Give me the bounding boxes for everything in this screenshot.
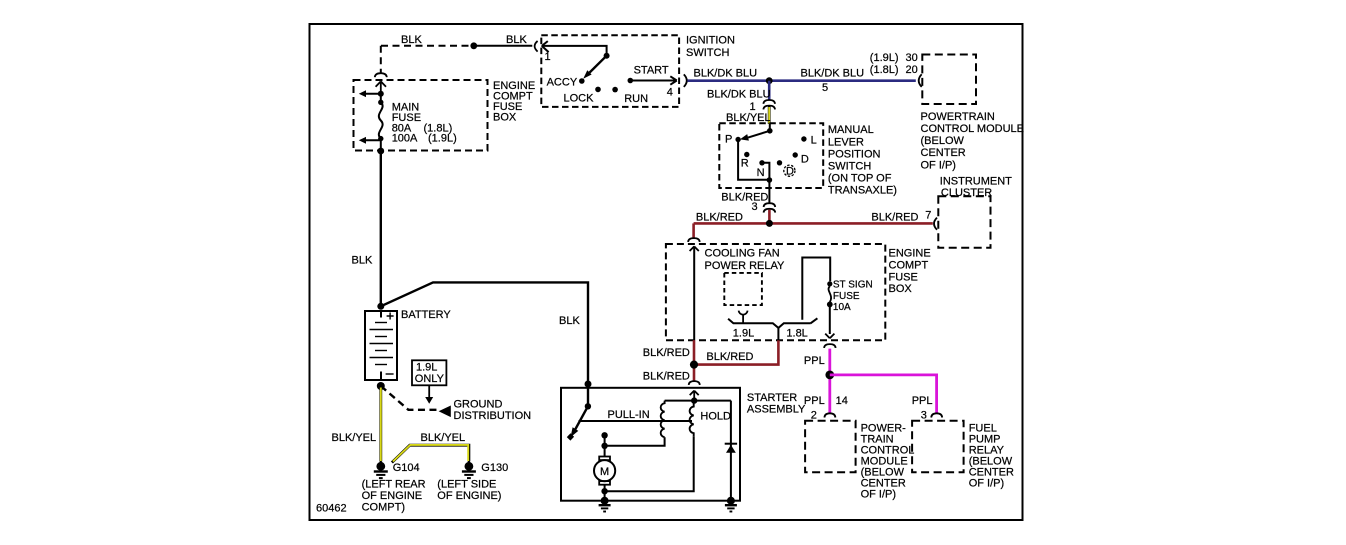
svg-text:20: 20 [906,64,918,76]
svg-text:R: R [741,158,749,170]
starter assembly box [561,388,740,501]
engine compt fuse box 2 (dashed) [666,244,885,340]
svg-text:OF ENGINE): OF ENGINE) [437,490,501,502]
svg-text:BLK/RED: BLK/RED [706,351,753,363]
svg-text:LOCK: LOCK [564,92,595,104]
svg-text:BLK/YEL: BLK/YEL [421,432,466,444]
svg-text:POWER RELAY: POWER RELAY [705,260,786,272]
connector at instrument cluster [934,218,937,230]
svg-text:P: P [725,133,732,145]
wire BLK solid to ignition switch [474,45,533,47]
svg-text:OF I/P): OF I/P) [969,477,1004,489]
svg-text:(ON TOP OF: (ON TOP OF [828,173,892,185]
svg-text:10A: 10A [833,302,851,313]
svg-text:COMPT: COMPT [889,260,929,272]
node at main fuse box bottom [380,139,382,151]
node solenoid coils top [691,397,697,403]
splice node on BLK/DK BLU [766,77,773,84]
wire fuse to box edge with down arrow [829,304,831,334]
svg-text:BLK/RED: BLK/RED [721,192,768,204]
svg-text:(LEFT SIDE: (LEFT SIDE [437,478,496,490]
pin 1 arrow inside ignition switch [542,41,549,52]
contact LOCK [595,87,601,93]
inline connector C1 [763,100,775,109]
wire BLK/YEL connector to MLPS [768,106,771,124]
connector at PCM pins 30/20 [919,74,922,87]
wire blade to coils [579,420,693,422]
connector at ignition switch pin 1 [535,41,538,52]
diode [730,401,732,501]
svg-text:BLK/RED: BLK/RED [871,212,918,224]
svg-text:DISTRIBUTION: DISTRIBUTION [454,410,532,422]
svg-text:2: 2 [811,409,817,421]
up arrow entering main fuse box [376,81,386,93]
ignition pivot dot [604,53,610,59]
svg-text:1.8L: 1.8L [786,327,807,339]
svg-text:OF I/P): OF I/P) [921,159,956,171]
inline connector C3 [764,203,776,212]
battery [365,311,397,380]
node motor bottom [601,488,607,494]
svg-text:CLUSTER: CLUSTER [941,187,992,199]
svg-text:BATTERY: BATTERY [401,309,451,321]
1.9L ONLY box [412,360,446,385]
node battery positive [377,303,384,310]
svg-text:BLK/RED: BLK/RED [643,371,690,383]
svg-text:N: N [757,167,765,179]
ground distribution arrow [439,406,451,418]
circled D (overdrive) [784,165,795,176]
wire BLK/DK BLU down to connector [768,81,771,100]
svg-text:M: M [600,466,609,478]
svg-text:SWITCH: SWITCH [686,47,729,59]
svg-text:OF ENGINE: OF ENGINE [362,490,423,502]
contact D2 [777,160,782,165]
svg-text:3: 3 [921,409,927,421]
up arrow entering fuse box [690,246,699,251]
svg-text:1.9L: 1.9L [416,362,437,374]
svg-text:ST SIGN: ST SIGN [833,280,873,291]
svg-text:(1.9L): (1.9L) [870,52,899,64]
contact P [735,137,740,142]
svg-text:(LEFT REAR: (LEFT REAR [362,478,426,490]
svg-text:G104: G104 [393,462,420,474]
svg-text:5: 5 [822,82,828,94]
ignition switch box [541,35,679,107]
wire coil tops [665,400,731,402]
feed arrow left (top) [363,93,381,95]
svg-text:ACCY: ACCY [547,76,578,88]
node at starter assembly top [585,381,592,388]
wire BLK/DK BLU ignition to PCM [687,79,915,82]
svg-text:(BELOW: (BELOW [921,135,965,147]
svg-text:ENGINE: ENGINE [889,248,931,260]
node diode ground [727,497,735,505]
svg-text:GROUND: GROUND [454,398,503,410]
node BLK/RED junction [690,361,698,369]
starter motor M [594,457,615,501]
svg-text:BLK/RED: BLK/RED [643,347,690,359]
ST SIGN fuse branch [802,258,830,320]
svg-text:PPL: PPL [912,395,933,407]
wire BLK/RED down into engine compt fuse box [692,223,695,238]
MLPS blade [769,124,771,131]
contact R [744,152,749,157]
svg-text:BLK: BLK [559,315,580,327]
svg-text:IGNITION: IGNITION [686,35,735,47]
up arrow entering starter assembly [690,391,699,401]
wire MLPS output to connector [768,180,770,203]
wire BLK/YEL battery to G104 [379,386,382,462]
svg-text:4: 4 [667,87,673,99]
arrow from 1.9L ONLY box [428,385,430,397]
starter switch pivot [585,403,591,409]
ground G130 [462,461,476,478]
wire BLK into starter switch [587,384,589,404]
pull-in coil [661,401,665,438]
connector at starter assembly [689,381,700,385]
svg-text:CONTROL MODULE: CONTROL MODULE [921,123,1025,135]
svg-text:60462: 60462 [316,503,347,515]
powertrain control module box (bottom) [805,421,856,473]
svg-text:HOLD: HOLD [700,410,731,422]
wire through fuse box (left vertical) [693,246,695,340]
svg-text:MANUAL: MANUAL [828,124,874,136]
svg-text:SWITCH: SWITCH [828,161,871,173]
svg-text:G130: G130 [481,462,508,474]
starter switch blade [575,406,588,429]
wire BLK/RED fuse box to starter [693,340,696,381]
svg-text:ONLY: ONLY [415,373,445,385]
svg-text:BLK: BLK [506,34,527,46]
svg-text:1.9L: 1.9L [733,327,754,339]
svg-text:7: 7 [925,210,931,222]
wire BLK/RED horizontal run [694,222,933,225]
cooling fan power relay box [724,273,762,305]
wire PPL from fuse to splice [828,349,831,413]
node main fuse top [378,91,384,97]
ignition switch blade [590,56,607,73]
svg-text:STARTER: STARTER [747,392,797,404]
svg-text:PPL: PPL [804,395,825,407]
svg-text:LEVER: LEVER [828,136,864,148]
svg-text:POWERTRAIN: POWERTRAIN [921,111,995,123]
svg-text:BOX: BOX [493,111,517,123]
svg-text:BLK: BLK [401,34,422,46]
svg-text:TRANSAXLE): TRANSAXLE) [828,185,897,197]
ground G104 [374,461,388,478]
svg-text:CENTER: CENTER [921,147,966,159]
svg-text:BLK/DK BLU: BLK/DK BLU [707,88,771,100]
connector below fuse box [824,344,836,348]
node PPL splice [825,371,834,380]
svg-text:14: 14 [836,395,848,407]
svg-text:D: D [786,166,794,178]
contact N [759,160,764,165]
wire BLK dashed from main fuse box to splice [381,46,473,73]
node battery negative [377,382,385,390]
contact L [801,136,806,141]
contact D [793,152,798,157]
svg-text:COMPT): COMPT) [362,502,405,514]
svg-text:OF I/P): OF I/P) [861,488,896,500]
svg-text:PULL-IN: PULL-IN [608,409,650,421]
svg-text:BLK/YEL: BLK/YEL [726,112,771,124]
wire PPL to fuel pump relay [830,375,937,413]
wire BLK from fuse box to battery [380,151,382,306]
svg-text:FUSE: FUSE [833,291,860,302]
node MLPS output [767,177,773,183]
wire pull-in coil bottom to motor contact [607,437,665,446]
ground under motor [599,505,611,511]
main fuse box (dashed) [354,80,488,151]
svg-text:BLK/YEL: BLK/YEL [332,432,377,444]
svg-text:D: D [801,153,809,165]
1.9L / 1.8L merge bracket [728,318,817,328]
connector at fuel pump relay pin 3 [931,413,942,417]
svg-text:START: START [634,65,669,77]
instrument cluster box [938,196,990,248]
hold coil [690,401,694,437]
connector at PCM pin 2 [824,413,835,417]
svg-text:100A: 100A [392,133,418,145]
svg-text:L: L [811,134,817,146]
contact RUN [612,87,618,93]
powertrain control module box (top) [922,55,976,105]
ground under diode [725,505,737,511]
wire BLK/YEL branch to G130 [392,445,469,463]
svg-text:ASSEMBLY: ASSEMBLY [747,403,806,415]
wire BLK/RED connector to splice [768,210,771,224]
contact ACCY [579,78,585,84]
contact START with arrow to pin 4 [628,78,634,84]
fuse ST SIGN 10A [827,281,832,286]
main fuse element [378,100,383,105]
Y connector under relay [739,311,748,324]
starter contacts [601,432,607,438]
svg-text:PPL: PPL [804,355,825,367]
svg-text:30: 30 [906,52,918,64]
svg-text:FUSE: FUSE [889,271,918,283]
svg-text:3: 3 [752,201,758,213]
dashed wire to ground distribution [381,386,437,410]
wire hold coil bottom to motor bottom [607,436,694,491]
svg-text:BLK/RED: BLK/RED [696,212,743,224]
svg-text:1: 1 [545,51,551,63]
border frame [310,24,1023,520]
wire ignition feed to pivot [542,46,607,53]
svg-text:(1.8L): (1.8L) [870,64,899,76]
manual lever position switch box [719,123,823,188]
svg-text:COOLING FAN: COOLING FAN [705,248,780,260]
fuel pump relay box [912,421,964,473]
svg-text:RUN: RUN [624,93,648,105]
svg-text:(1.9L): (1.9L) [428,133,457,145]
connector at fuse box top [688,238,700,242]
svg-text:BLK/DK BLU: BLK/DK BLU [694,68,758,80]
wire N contact to output [762,163,769,180]
connector at ignition switch pin 4 [684,74,687,87]
wire P contact to output [738,140,769,180]
connector at main fuse box top [375,73,387,77]
feed arrow left (bottom) [363,139,381,141]
svg-text:BLK/DK BLU: BLK/DK BLU [801,68,865,80]
node MLPS to BLK/RED run [766,220,773,227]
splice dot on BLK wire [470,42,477,49]
wire BLK battery to starter assembly [381,282,588,384]
node motor ground [601,497,609,505]
svg-text:POSITION: POSITION [828,148,881,160]
wire BLK/RED merge output [694,340,778,364]
svg-text:BLK: BLK [352,254,373,266]
svg-text:BOX: BOX [889,283,913,295]
svg-text:INSTRUMENT: INSTRUMENT [940,176,1012,188]
